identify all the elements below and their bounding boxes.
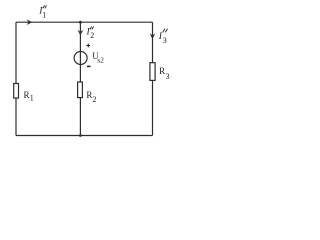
svg-text:1: 1 xyxy=(42,11,46,20)
svg-text:R: R xyxy=(159,66,165,76)
svg-text:2: 2 xyxy=(90,31,94,40)
svg-text:s2: s2 xyxy=(97,56,104,65)
svg-text:3: 3 xyxy=(163,36,167,45)
svg-text:2: 2 xyxy=(93,95,97,104)
svg-text:R: R xyxy=(86,90,92,100)
svg-text:1: 1 xyxy=(30,94,34,103)
svg-text:3: 3 xyxy=(166,72,170,81)
svg-text:R: R xyxy=(24,90,30,100)
